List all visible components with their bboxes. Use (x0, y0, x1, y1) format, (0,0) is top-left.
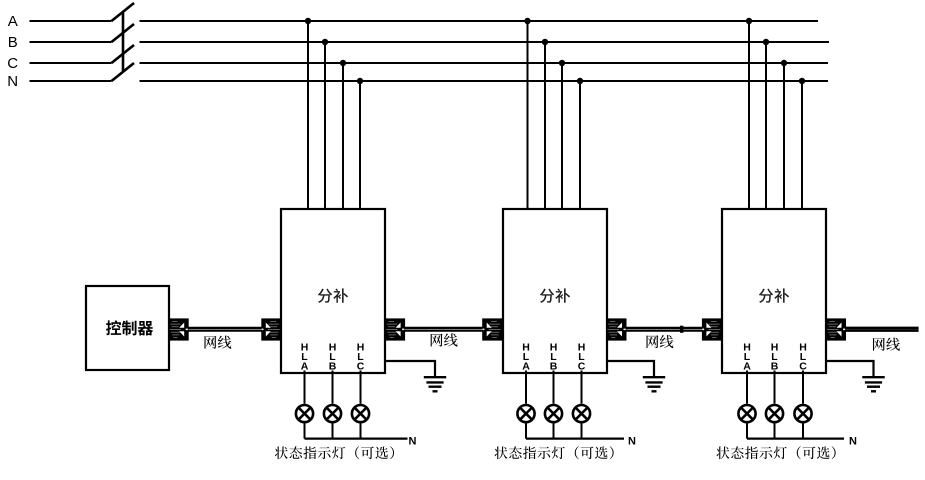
bus N right segment (140, 80, 829, 82)
label 网线 (cable 2) (431, 333, 458, 346)
pin wire HLA (U2) (525, 371, 527, 404)
cable 网线 1 (controller to U1) (188, 328, 261, 331)
lamp drop wire HLC (U1) (360, 424, 362, 439)
ground GND3 wire (826, 361, 874, 376)
tap wire U2 phase B (544, 42, 546, 209)
connector plug J4 (U2 left) (482, 318, 503, 340)
svg-text:B: B (8, 34, 18, 51)
tap wire U3 phase A (748, 21, 750, 209)
connector plug J5 (U2 right) (606, 318, 627, 340)
svg-text:N: N (628, 436, 636, 448)
lamp drop wire HLA (U3) (746, 424, 748, 439)
pin label HLC (U2) (578, 342, 586, 373)
lamp HLB (U3) (766, 405, 783, 422)
junction dot U3 phase A (746, 18, 752, 24)
lamp HLC (U2) (573, 405, 590, 422)
ground GND2 symbol (643, 377, 665, 391)
pin wire HLB (U3) (774, 371, 776, 404)
pin label HLC (U1) (357, 342, 365, 373)
bus N left segment (30, 80, 112, 82)
junction dot U3 phase C (781, 60, 787, 66)
lamp drop wire HLB (U3) (774, 424, 776, 439)
svg-text:N: N (409, 436, 417, 448)
unit U3 box (分补 module) (722, 209, 826, 373)
lamp drop wire HLB (U1) (332, 424, 334, 439)
svg-text:A: A (8, 13, 18, 30)
N return bus (U2) (526, 438, 624, 440)
pin label HLB (U1) (329, 342, 337, 373)
lamp drop wire HLC (U2) (581, 424, 583, 439)
junction dot U2 phase A (524, 18, 530, 24)
pin label HLB (U3) (771, 342, 779, 373)
junction dot U1 phase A (305, 18, 311, 24)
label 网线 (cable 3) (646, 335, 673, 348)
svg-text:C: C (7, 55, 18, 72)
tap wire U2 phase C (561, 63, 563, 209)
lamp HLB (U2) (545, 405, 562, 422)
switch blade N (112, 63, 135, 81)
tap wire U2 phase A (527, 21, 529, 209)
connector plug J3 (U1 right) (385, 318, 406, 340)
label 控制器 (controller) (106, 320, 153, 335)
label 网线 (cable 4) (873, 338, 900, 351)
lamp drop wire HLB (U2) (553, 424, 555, 439)
junction dot U2 phase B (542, 39, 548, 45)
switch blade A (112, 3, 135, 21)
bus A left segment (30, 20, 112, 22)
tap wire U1 phase A (307, 21, 309, 209)
pin wire HLA (U3) (746, 371, 748, 404)
pin label HLA (U3) (743, 342, 751, 373)
label 状态指示灯（可选） (U3) (716, 446, 835, 459)
unit U1 box (分补 module) (281, 209, 385, 373)
junction dot U3 phase B (763, 39, 769, 45)
connector plug J7 (U3 right) (826, 318, 847, 340)
label 网线 (cable 1) (204, 336, 231, 349)
bus C right segment (140, 62, 829, 64)
label 分补 (U1) (318, 288, 348, 302)
pin label HLC (U3) (799, 342, 807, 373)
lamp HLC (U3) (794, 405, 811, 422)
label 分补 (U2) (540, 288, 570, 302)
connector plug J1 (controller right) (168, 318, 189, 340)
pin label HLB (U2) (550, 342, 558, 373)
ground GND1 wire (385, 361, 435, 376)
bus B right segment (140, 41, 830, 43)
switch blade C (112, 45, 135, 63)
pin label HLA (U2) (522, 342, 530, 373)
junction dot U3 phase N (799, 78, 805, 84)
switch QS link bar (122, 12, 125, 72)
lamp drop wire HLC (U3) (802, 424, 804, 439)
N return bus (U1) (305, 438, 408, 440)
lamp HLA (U3) (738, 405, 755, 422)
lamp drop wire HLA (U1) (304, 424, 306, 439)
lamp HLA (U2) (517, 405, 534, 422)
label 状态指示灯（可选） (U2) (494, 446, 613, 459)
pin label HLA (U1) (301, 342, 309, 373)
label 分补 (U3) (759, 288, 789, 302)
pin wire HLB (U2) (553, 371, 555, 404)
cable 网线 2 (U1 to U2) (405, 328, 483, 331)
tap wire U3 phase B (765, 42, 767, 209)
lamp HLB (U1) (324, 405, 341, 422)
ground GND3 symbol (862, 377, 884, 391)
connector plug J2 (U1 left) (261, 318, 282, 340)
label 状态指示灯（可选） (U1) (275, 446, 394, 459)
junction dot U2 phase C (559, 60, 565, 66)
tap wire U1 phase C (342, 63, 344, 209)
junction dot U2 phase N (577, 78, 583, 84)
bus B left segment (30, 41, 112, 43)
bus C left segment (30, 62, 112, 64)
ground GND2 wire (607, 361, 654, 376)
connector plug J6 (U3 left) (702, 318, 723, 340)
tap wire U1 phase B (324, 42, 326, 209)
pin wire HLB (U1) (332, 371, 334, 404)
ground GND1 symbol (424, 377, 446, 391)
junction dot U1 phase B (322, 39, 328, 45)
svg-text:N: N (7, 73, 18, 90)
N return bus (U3) (747, 438, 844, 440)
tap wire U1 phase N (359, 81, 361, 209)
lamp HLA (U1) (296, 405, 313, 422)
pin wire HLC (U1) (360, 371, 362, 404)
bus A right segment (140, 20, 819, 22)
junction dot U1 phase N (357, 78, 363, 84)
controller box (86, 286, 169, 370)
svg-text:N: N (849, 436, 857, 448)
tap wire U3 phase N (801, 81, 803, 209)
cable 网线 4 (U3 outgoing) (846, 328, 919, 331)
tap wire U3 phase C (783, 63, 785, 209)
lamp HLC (U1) (352, 405, 369, 422)
pin wire HLC (U2) (581, 371, 583, 404)
pin wire HLC (U3) (802, 371, 804, 404)
pin wire HLA (U1) (304, 371, 306, 404)
tap wire U2 phase N (579, 81, 581, 209)
junction dot U1 phase C (340, 60, 346, 66)
lamp drop wire HLA (U2) (525, 424, 527, 439)
cable 网线 3 (U2 to U3) (626, 328, 702, 331)
unit U2 box (分补 module) (503, 209, 607, 373)
switch blade B (112, 24, 135, 42)
